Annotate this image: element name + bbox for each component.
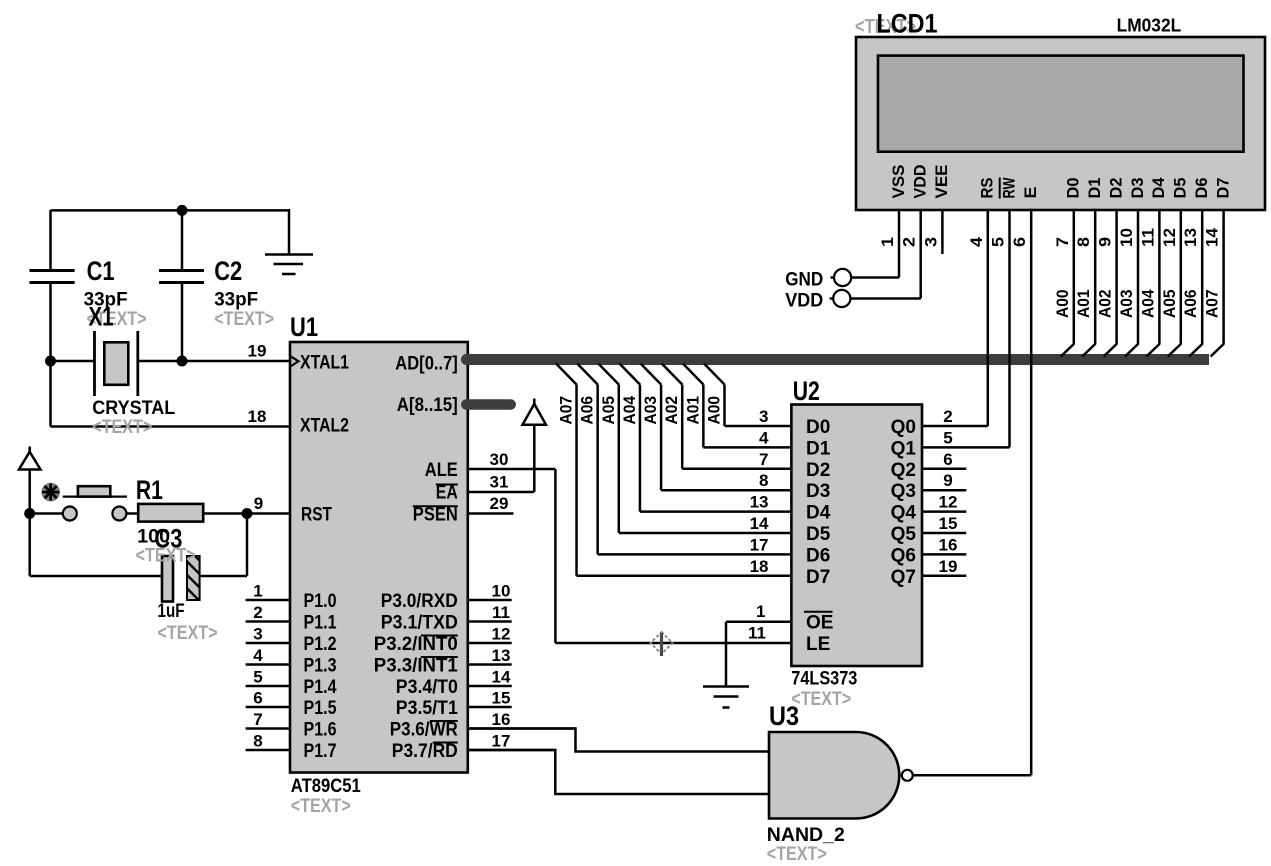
svg-text:RST: RST: [301, 505, 332, 526]
svg-text:D5: D5: [806, 524, 831, 545]
svg-text:1: 1: [756, 602, 765, 621]
svg-text:Q2: Q2: [891, 460, 916, 481]
svg-text:D3: D3: [806, 481, 830, 502]
svg-text:EA: EA: [436, 483, 458, 504]
svg-text:31: 31: [490, 473, 509, 492]
svg-text:A05: A05: [1161, 289, 1179, 318]
svg-text:VSS: VSS: [890, 165, 908, 199]
svg-text:8: 8: [759, 471, 768, 490]
svg-text:R1: R1: [136, 475, 163, 505]
svg-text:3: 3: [759, 407, 768, 426]
svg-text:XTAL1: XTAL1: [300, 352, 349, 373]
svg-text:D6: D6: [1193, 178, 1211, 199]
svg-text:D2: D2: [1107, 178, 1125, 199]
svg-text:D4: D4: [1150, 177, 1168, 199]
svg-text:D1: D1: [1086, 178, 1104, 199]
svg-text:14: 14: [1203, 227, 1222, 247]
svg-text:P1.7: P1.7: [304, 741, 337, 762]
svg-text:C1: C1: [87, 256, 115, 286]
svg-text:10: 10: [492, 582, 511, 601]
svg-text:10: 10: [1117, 228, 1136, 247]
svg-text:A04: A04: [621, 395, 639, 424]
svg-text:Q1: Q1: [891, 438, 917, 459]
svg-text:19: 19: [939, 557, 958, 576]
svg-text:2: 2: [943, 407, 952, 426]
svg-text:C2: C2: [214, 256, 242, 286]
svg-text:15: 15: [939, 514, 958, 533]
svg-text:AT89C51: AT89C51: [291, 775, 361, 797]
svg-text:1uF: 1uF: [158, 600, 185, 622]
svg-text:P3.7/RD: P3.7/RD: [392, 741, 458, 762]
svg-text:5: 5: [253, 668, 262, 687]
svg-text:14: 14: [492, 668, 511, 687]
svg-text:6: 6: [1010, 237, 1029, 247]
svg-text:2: 2: [900, 237, 919, 247]
svg-text:A01: A01: [684, 396, 702, 425]
svg-text:VDD: VDD: [912, 164, 930, 198]
svg-text:3: 3: [921, 237, 940, 247]
svg-text:17: 17: [750, 535, 769, 554]
svg-text:7: 7: [759, 450, 768, 469]
svg-text:3: 3: [253, 625, 262, 644]
svg-text:D1: D1: [806, 438, 831, 459]
svg-text:1: 1: [253, 582, 262, 601]
svg-text:<TEXT>: <TEXT>: [92, 416, 152, 438]
svg-text:ALE: ALE: [425, 460, 458, 481]
svg-text:LM032L: LM032L: [1117, 15, 1182, 36]
svg-text:LCD1: LCD1: [877, 9, 938, 39]
svg-text:A02: A02: [663, 396, 681, 425]
svg-text:13: 13: [750, 493, 769, 512]
svg-text:A02: A02: [1097, 289, 1115, 318]
svg-text:D0: D0: [1065, 178, 1083, 199]
svg-text:P1.5: P1.5: [304, 698, 337, 719]
svg-text:9: 9: [254, 494, 263, 513]
svg-text:8: 8: [253, 732, 262, 751]
svg-text:LE: LE: [806, 634, 830, 655]
svg-text:D4: D4: [806, 503, 831, 524]
svg-text:Q0: Q0: [891, 417, 916, 438]
svg-text:12: 12: [939, 493, 958, 512]
svg-text:D0: D0: [806, 417, 830, 438]
svg-text:P1.1: P1.1: [304, 613, 337, 634]
svg-text:A07: A07: [1204, 289, 1222, 318]
svg-text:6: 6: [253, 689, 262, 708]
svg-text:P3.2/INT0: P3.2/INT0: [374, 634, 458, 655]
svg-text:A04: A04: [1139, 289, 1157, 318]
svg-text:P1.0: P1.0: [304, 591, 337, 612]
svg-text:11: 11: [748, 624, 766, 643]
svg-text:<TEXT>: <TEXT>: [291, 795, 351, 817]
svg-text:16: 16: [939, 535, 958, 554]
svg-text:30: 30: [490, 450, 509, 469]
svg-text:6: 6: [943, 450, 952, 469]
svg-text:7: 7: [253, 710, 262, 729]
svg-text:4: 4: [253, 646, 263, 665]
svg-text:1: 1: [878, 237, 897, 247]
svg-text:A06: A06: [579, 396, 597, 425]
svg-text:Q6: Q6: [891, 545, 916, 566]
svg-text:D7: D7: [1214, 178, 1232, 199]
svg-text:VEE: VEE: [933, 165, 951, 199]
svg-text:17: 17: [492, 732, 511, 751]
svg-text:U2: U2: [793, 376, 820, 406]
svg-text:4: 4: [759, 428, 769, 447]
svg-text:P3.3/INT1: P3.3/INT1: [374, 656, 458, 677]
svg-text:<TEXT>: <TEXT>: [136, 545, 196, 567]
svg-text:D6: D6: [806, 545, 830, 566]
svg-text:A[8..15]: A[8..15]: [397, 395, 458, 416]
svg-text:<TEXT>: <TEXT>: [791, 688, 851, 710]
svg-text:15: 15: [492, 689, 511, 708]
svg-text:Q3: Q3: [891, 481, 916, 502]
svg-text:14: 14: [750, 514, 769, 533]
svg-text:74LS373: 74LS373: [791, 667, 857, 689]
svg-text:<TEXT>: <TEXT>: [767, 843, 827, 865]
svg-text:11: 11: [492, 603, 510, 622]
svg-text:XTAL2: XTAL2: [300, 416, 349, 437]
svg-text:D2: D2: [806, 460, 830, 481]
svg-text:9: 9: [943, 471, 952, 490]
svg-text:D7: D7: [806, 567, 830, 588]
svg-text:E: E: [1022, 187, 1040, 199]
svg-text:7: 7: [1053, 237, 1072, 247]
svg-text:P1.3: P1.3: [304, 656, 337, 677]
svg-text:P3.4/T0: P3.4/T0: [396, 677, 458, 698]
svg-text:P1.2: P1.2: [304, 634, 337, 655]
svg-text:D5: D5: [1172, 178, 1190, 199]
svg-text:5: 5: [943, 428, 952, 447]
svg-text:GND: GND: [785, 269, 823, 291]
svg-text:<TEXT>: <TEXT>: [214, 308, 274, 330]
svg-text:AD[0..7]: AD[0..7]: [395, 354, 458, 375]
svg-text:12: 12: [1160, 228, 1179, 247]
svg-text:A05: A05: [600, 396, 618, 425]
svg-text:18: 18: [750, 557, 769, 576]
svg-text:RS: RS: [979, 178, 997, 199]
svg-text:A03: A03: [1118, 289, 1136, 318]
svg-text:P3.1/TXD: P3.1/TXD: [381, 613, 458, 634]
svg-text:A06: A06: [1182, 289, 1200, 318]
svg-text:P3.0/RXD: P3.0/RXD: [381, 591, 458, 612]
svg-text:A07: A07: [558, 396, 576, 425]
svg-text:U3: U3: [769, 701, 799, 731]
svg-text:VDD: VDD: [785, 290, 823, 312]
svg-text:P1.4: P1.4: [304, 677, 337, 698]
svg-text:A00: A00: [1054, 289, 1072, 318]
svg-text:13: 13: [1181, 228, 1200, 247]
svg-text:X1: X1: [89, 302, 114, 332]
svg-text:A03: A03: [642, 396, 660, 425]
svg-text:8: 8: [1074, 237, 1093, 247]
svg-text:A01: A01: [1075, 289, 1093, 318]
svg-text:P3.5/T1: P3.5/T1: [396, 698, 458, 719]
svg-text:18: 18: [248, 407, 267, 426]
svg-text:Q4: Q4: [891, 503, 917, 524]
svg-text:12: 12: [492, 625, 511, 644]
svg-text:19: 19: [248, 342, 267, 361]
svg-text:Q7: Q7: [891, 567, 916, 588]
svg-text:Q5: Q5: [891, 524, 917, 545]
svg-text:<TEXT>: <TEXT>: [158, 622, 218, 644]
svg-text:16: 16: [492, 710, 511, 729]
svg-text:11: 11: [1138, 228, 1157, 247]
svg-text:13: 13: [492, 646, 511, 665]
svg-text:P3.6/WR: P3.6/WR: [390, 720, 458, 741]
svg-text:P1.6: P1.6: [304, 720, 337, 741]
svg-text:2: 2: [253, 603, 262, 622]
svg-text:OE: OE: [806, 613, 833, 634]
svg-text:U1: U1: [290, 312, 318, 342]
svg-text:A00: A00: [706, 396, 724, 425]
svg-text:D3: D3: [1129, 178, 1147, 199]
svg-text:4: 4: [967, 236, 986, 247]
svg-text:5: 5: [989, 237, 1008, 247]
svg-text:RW: RW: [1000, 177, 1018, 198]
svg-text:29: 29: [490, 494, 509, 513]
svg-text:PSEN: PSEN: [413, 505, 458, 526]
svg-text:9: 9: [1096, 237, 1115, 247]
